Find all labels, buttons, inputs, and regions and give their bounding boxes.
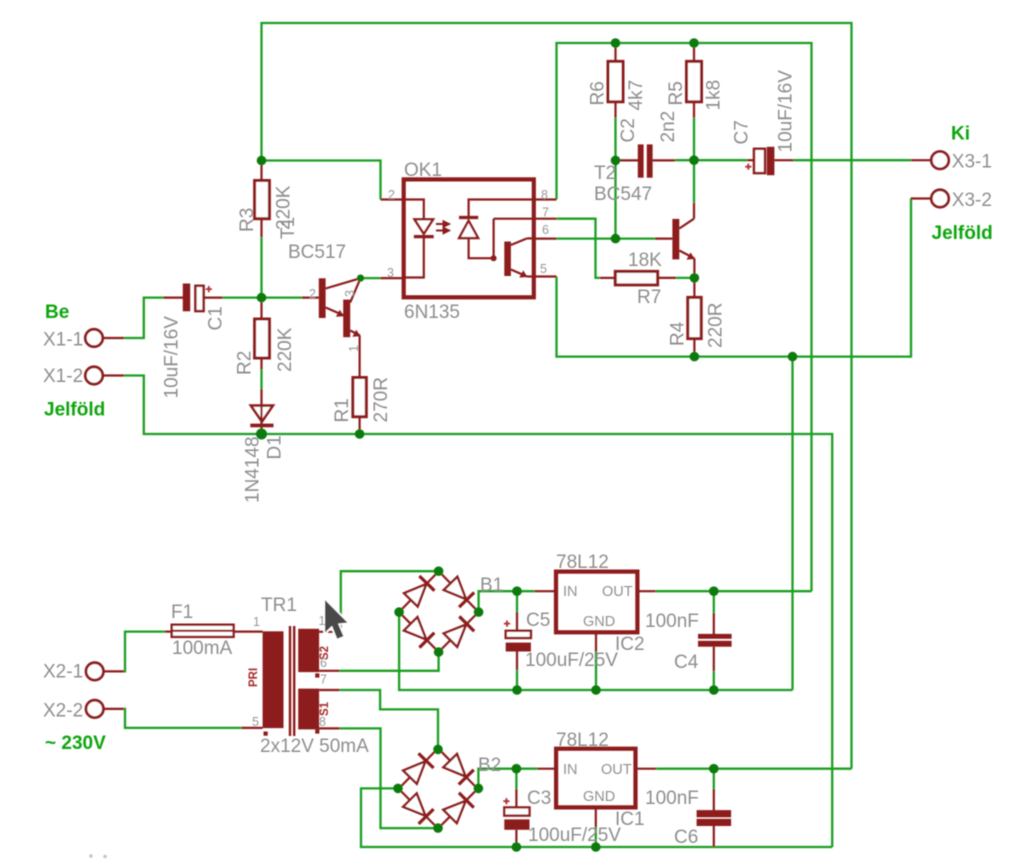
svg-text:IN: IN (563, 584, 578, 600)
connector X2-1 (86, 663, 124, 680)
svg-text:5: 5 (540, 262, 547, 276)
svg-text:8: 8 (319, 715, 326, 729)
fuse F1 (165, 625, 263, 637)
svg-text:BC517: BC517 (288, 242, 346, 263)
svg-text:Jelföld: Jelföld (932, 223, 993, 244)
junction C3 bottom (512, 842, 522, 852)
wire TR1 S1 pin7 to B2 top (340, 690, 439, 749)
svg-text:C4: C4 (674, 652, 699, 673)
svg-text:C1: C1 (206, 306, 227, 330)
wire X1-1 to C1 (124, 298, 164, 338)
wire C4 stubs (713, 591, 715, 613)
svg-text:2n2: 2n2 (658, 111, 679, 143)
svg-text:R6: R6 (588, 81, 609, 105)
junction B1 plus (474, 607, 484, 617)
junction R4 bottom (690, 352, 700, 362)
junction R5 top (689, 38, 699, 48)
wire OK1 pin6 to T2 base (557, 237, 656, 239)
junction output node (689, 155, 699, 165)
svg-text:R3: R3 (237, 208, 258, 232)
voltage regulator IC2 78L12 (535, 572, 656, 690)
wire OK1 pin5 to mid rail to X3-2 (557, 199, 912, 357)
svg-text:C5: C5 (526, 610, 550, 631)
svg-text:PRI: PRI (248, 668, 260, 687)
svg-text:IC2: IC2 (615, 634, 645, 655)
connector X2-2 (86, 700, 124, 717)
svg-text:Ki: Ki (951, 124, 970, 145)
svg-text:F1: F1 (171, 602, 193, 623)
junction C3 top (512, 764, 522, 774)
stray mark bottom left (89, 854, 107, 858)
wire TR1 S2 pin6 to B1 bottom (340, 652, 439, 671)
junction B1 minus (394, 607, 404, 617)
svg-text:R1: R1 (332, 398, 353, 422)
wire TR1 S2 pin1 to B1 top (340, 571, 439, 632)
svg-text:X1-2: X1-2 (43, 366, 83, 387)
resistor R5 (687, 43, 702, 118)
svg-text:X1-1: X1-1 (43, 330, 83, 351)
resistor R6 (608, 43, 623, 118)
svg-text:Be: Be (45, 302, 69, 323)
svg-text:T2: T2 (594, 163, 616, 184)
transistor Q1 BC517 darlington (302, 278, 361, 378)
wire top inner rail from OK1 pin8 to IC2 OUT (557, 43, 812, 591)
svg-text:GND: GND (583, 789, 615, 805)
wire C2 node vertical (614, 160, 616, 238)
svg-text:8: 8 (541, 188, 548, 202)
svg-text:OUT: OUT (602, 584, 633, 600)
svg-text:100nF: 100nF (645, 611, 699, 632)
svg-text:100nF: 100nF (645, 788, 699, 809)
capacitor C4 (698, 613, 732, 671)
wire R3 bottom to base node (260, 237, 262, 297)
svg-text:IC1: IC1 (615, 809, 645, 830)
svg-text:1: 1 (347, 345, 361, 352)
junction mid rail riser (788, 352, 798, 362)
svg-text:X2-2: X2-2 (43, 701, 83, 722)
svg-text:BC547: BC547 (594, 184, 652, 205)
wire R2 to D1 gap (260, 370, 262, 390)
wire TR1 S1 pin8 to B2 bottom (340, 728, 439, 828)
svg-text:5: 5 (252, 715, 259, 729)
svg-text:220K: 220K (275, 327, 296, 372)
svg-text:100mA: 100mA (172, 638, 233, 659)
junction B2 minus (393, 784, 403, 794)
wire R6 bottom to C2 node (614, 118, 616, 161)
svg-text:100uF/25V: 100uF/25V (525, 650, 618, 671)
junction Q1 collector (357, 275, 364, 282)
junction C4 bottom (709, 685, 719, 695)
capacitor C7 (745, 147, 793, 175)
wire C7 to X3-1 (794, 159, 911, 161)
wire B1 minus to IC2 gnd rail (399, 612, 792, 690)
svg-text:3: 3 (343, 290, 357, 297)
svg-text:D1: D1 (265, 435, 286, 459)
wire B1 plus to IC2 IN (479, 591, 535, 612)
svg-text:78L12: 78L12 (556, 730, 609, 751)
svg-text:220R: 220R (706, 303, 727, 348)
svg-text:1N4148: 1N4148 (243, 436, 264, 503)
wire R5 bottom to out node (693, 118, 695, 160)
resistor R1 (353, 378, 366, 435)
svg-text:1: 1 (319, 614, 326, 628)
junction B2 plus (474, 784, 484, 794)
svg-text:3: 3 (387, 266, 394, 280)
svg-text:10uF/16V: 10uF/16V (776, 70, 797, 153)
wire X2-1 to F1 (124, 632, 165, 672)
capacitor C5 (504, 612, 531, 670)
capacitor C3 (503, 789, 529, 847)
wire C3 top stub (515, 769, 517, 789)
svg-text:GND: GND (583, 614, 615, 630)
svg-text:2: 2 (388, 188, 395, 202)
junction T2 emitter node (690, 273, 700, 283)
svg-text:7: 7 (542, 206, 549, 220)
junction IC1 GND (591, 842, 601, 852)
svg-text:~ 230V: ~ 230V (45, 733, 106, 754)
resistor R2 (255, 298, 270, 370)
svg-text:2: 2 (309, 287, 316, 301)
svg-text:S1: S1 (319, 701, 331, 716)
svg-text:R2: R2 (235, 351, 256, 375)
junction C2 left node (611, 156, 621, 166)
wire T2 collector drop (693, 160, 695, 203)
wire R3 node to OK1 pin2 (262, 161, 381, 200)
junction D1 cathode (256, 429, 267, 440)
svg-text:R4: R4 (668, 321, 689, 346)
junction B2 AC bottom (433, 823, 443, 833)
junction B1 AC top (434, 566, 444, 576)
svg-text:IN: IN (563, 762, 578, 778)
svg-text:C2: C2 (618, 118, 639, 142)
wire C5 stubs (516, 591, 518, 612)
junction C6 top (709, 764, 719, 774)
connector X3-1 (911, 152, 949, 169)
capacitor C6 (697, 789, 732, 847)
svg-text:C3: C3 (527, 788, 551, 809)
wire OK1 pin7 to R7 (557, 219, 601, 278)
svg-text:B2: B2 (478, 755, 501, 776)
svg-text:1k8: 1k8 (704, 80, 725, 111)
svg-text:7: 7 (320, 673, 327, 687)
svg-text:C7: C7 (732, 120, 753, 144)
resistor R3 (255, 161, 270, 238)
wire Q1 collector to OK1 pin3 (361, 277, 381, 279)
svg-text:78L12: 78L12 (556, 552, 609, 573)
resistor R7 (600, 271, 676, 285)
mouse cursor (325, 600, 348, 639)
connector X1-2 (85, 367, 124, 384)
svg-text:C6: C6 (674, 827, 698, 848)
junction C5 bottom (512, 685, 522, 695)
svg-text:4k7: 4k7 (626, 80, 647, 111)
resistor R4 (688, 278, 701, 357)
svg-text:T1: T1 (278, 217, 299, 239)
svg-text:1: 1 (253, 615, 260, 629)
wire bottom supply rail (361, 788, 832, 847)
svg-text:TR1: TR1 (261, 595, 297, 616)
junction R6 top (611, 38, 621, 48)
transistor T2 BC547 (655, 203, 695, 278)
junction C4 top (709, 586, 719, 596)
svg-text:2x12V 50mA: 2x12V 50mA (260, 736, 369, 757)
junction R1 bottom (355, 429, 365, 439)
junction C5 top (512, 586, 522, 596)
wire top outer rail from R3 node to IC1 OUT (262, 23, 852, 769)
junction Q1 base node (257, 293, 267, 303)
junction IC2 GND (591, 685, 601, 695)
svg-text:Jelföld: Jelföld (44, 400, 105, 421)
svg-text:100uF/25V: 100uF/25V (528, 825, 621, 846)
svg-text:X3-1: X3-1 (952, 152, 992, 173)
wire R7 right to emitter node (676, 277, 695, 279)
capacitor C1 (164, 284, 223, 312)
wire C6 top stub (713, 769, 715, 789)
svg-text:6: 6 (320, 656, 327, 670)
svg-text:X3-2: X3-2 (952, 190, 992, 211)
svg-text:OUT: OUT (601, 762, 632, 778)
svg-text:18K: 18K (628, 250, 662, 271)
wire out node horizontals to C7 (675, 159, 748, 161)
svg-text:270R: 270R (371, 377, 392, 422)
junction T2 base node (611, 234, 621, 244)
connector X1-1 (85, 329, 124, 346)
bridge rectifier B1 (391, 564, 486, 660)
wire C1 to base node to Q1 base (223, 296, 303, 298)
wire IC2 OUT to right riser (656, 590, 812, 592)
svg-text:B1: B1 (480, 575, 503, 596)
wire mid rail drop to IC2 gnd rail (791, 357, 793, 690)
junction B2 AC top (433, 745, 443, 755)
capacitor C2 (616, 144, 676, 177)
transformer TR1 (242, 626, 340, 736)
voltage regulator IC1 78L12 (538, 749, 657, 847)
connector X3-2 (911, 190, 949, 207)
wire B2 plus to IC1 IN (478, 769, 537, 789)
wire IC1 OUT to right riser (656, 768, 851, 770)
wire X1-2 down and ground rail to bottom right (124, 376, 832, 848)
junction B1 AC bottom (434, 647, 444, 657)
svg-text:6: 6 (542, 223, 549, 237)
optocoupler U OK1 6N135 (381, 179, 557, 297)
wire X2-2 to TR1 pin5 (124, 709, 242, 728)
junction R3 top node (257, 156, 267, 166)
svg-text:OK1: OK1 (404, 160, 442, 181)
svg-text:X2-1: X2-1 (43, 662, 83, 683)
svg-text:R7: R7 (637, 287, 661, 308)
svg-text:6N135: 6N135 (404, 302, 460, 323)
svg-text:R5: R5 (666, 81, 687, 105)
diode D1 (250, 389, 273, 434)
svg-text:10uF/16V: 10uF/16V (162, 316, 183, 399)
bridge rectifier B2 (390, 741, 485, 836)
